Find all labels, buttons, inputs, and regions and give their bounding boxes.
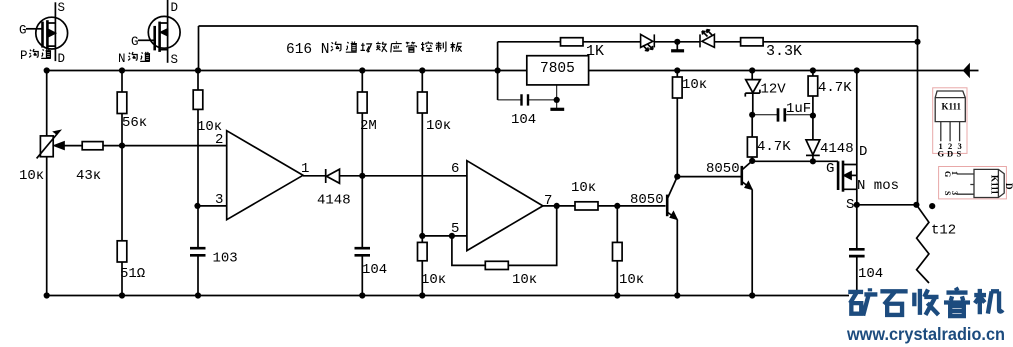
node 7805 gnd-104 <box>554 97 560 103</box>
node rail-10k col2 <box>195 67 201 73</box>
svg-text:3: 3 <box>950 191 959 195</box>
svg-text:10κ: 10κ <box>426 118 451 134</box>
wire 1K row <box>498 41 918 43</box>
svg-text:K111: K111 <box>990 175 1000 195</box>
node LED-ground <box>674 39 680 45</box>
node Q2 collector <box>749 158 755 164</box>
svg-text:10κ: 10κ <box>571 180 596 196</box>
svg-text:D: D <box>859 144 867 160</box>
svg-text:43κ: 43κ <box>76 168 101 184</box>
node Q1 collector <box>674 174 680 180</box>
node rail-4.7K <box>810 67 816 73</box>
capacitor 104 regulator <box>498 94 557 105</box>
svg-text:3: 3 <box>215 192 223 208</box>
node source-t12 <box>913 202 919 208</box>
svg-text:10κ: 10κ <box>682 77 707 93</box>
wire pin2 row with wiper arrow <box>55 142 83 149</box>
potentiometer RP1 10k <box>37 71 60 296</box>
wire source row <box>857 204 917 206</box>
svg-text:N mos: N mos <box>857 178 899 194</box>
transistor legend N-channel MOSFET <box>138 0 180 63</box>
svg-text:616 N: 616 N <box>286 42 330 58</box>
svg-text:G: G <box>826 161 834 177</box>
ground regulator <box>550 85 564 109</box>
svg-text:10κ: 10κ <box>619 272 644 288</box>
node pin2-43k <box>119 143 125 149</box>
resistor 4.7K left <box>747 115 757 161</box>
node gnd-103 <box>195 292 201 298</box>
svg-text:G: G <box>938 149 945 159</box>
node source <box>854 202 860 208</box>
svg-text:56κ: 56κ <box>122 115 147 131</box>
svg-text:D: D <box>58 52 66 66</box>
diode D3 4148 vertical <box>806 140 820 162</box>
capacitor 104 source <box>849 205 865 290</box>
wire op1 output to diode <box>303 175 326 177</box>
transistor legend P-channel MOSFET <box>26 2 68 61</box>
svg-text:S: S <box>171 53 179 67</box>
wire gate row <box>752 160 838 162</box>
svg-text:4.7K: 4.7K <box>757 139 791 155</box>
svg-text:G: G <box>19 24 27 38</box>
LED D2 <box>641 34 655 51</box>
node rail-pot <box>44 67 50 73</box>
node rail-drain <box>854 67 860 73</box>
svg-text:8050: 8050 <box>630 192 664 208</box>
resistor 51ohm <box>117 241 127 296</box>
wire pin2 row to op-amp <box>103 145 227 147</box>
node diode-2M-104 <box>359 173 365 179</box>
op-amp U1A <box>227 131 303 220</box>
svg-text:10κ: 10κ <box>19 168 44 184</box>
node output-feedback <box>554 203 560 209</box>
svg-text:N: N <box>118 52 126 66</box>
node gnd-104 <box>359 292 365 298</box>
node gnd-pot <box>44 292 50 298</box>
svg-text:51Ω: 51Ω <box>120 266 145 282</box>
power MOSFET N mos <box>838 71 857 205</box>
watermark 矿石收音机 <box>848 288 1003 317</box>
svg-text:D: D <box>171 1 179 15</box>
svg-text:P: P <box>20 49 28 63</box>
node gnd-51ohm <box>119 292 125 298</box>
thermistor t12 <box>916 205 929 283</box>
wire ground rail <box>47 295 849 297</box>
wire pin3 row <box>198 205 227 207</box>
regulator U2 7805 <box>527 56 589 85</box>
wire top rail <box>199 26 918 71</box>
wire pin5 row <box>422 235 467 237</box>
svg-text:7805: 7805 <box>540 61 575 77</box>
resistor 4.7K right <box>808 71 818 140</box>
diode D1 4148 <box>326 169 340 183</box>
svg-text:S: S <box>58 1 66 15</box>
svg-text:1: 1 <box>301 161 309 177</box>
svg-text:D: D <box>1004 183 1013 190</box>
resistor 43k <box>82 142 103 150</box>
node pin5-10k <box>419 233 425 239</box>
svg-text:S: S <box>957 149 962 159</box>
svg-text:G: G <box>131 35 139 49</box>
K111 package top view <box>933 88 967 159</box>
svg-text:103: 103 <box>213 251 238 267</box>
resistor 2M <box>358 71 368 249</box>
zener diode 12V <box>745 71 760 115</box>
svg-text:2: 2 <box>215 132 223 148</box>
resistor 10k base divider <box>613 206 623 296</box>
capacitor 103 <box>190 248 206 295</box>
node 1uF-4.7K <box>810 113 816 119</box>
node 3.3K-top drop <box>914 39 920 45</box>
svg-text:3.3K: 3.3K <box>766 43 802 60</box>
LED D4 <box>700 30 714 48</box>
node rail-7805 input <box>495 67 501 73</box>
svg-text:D: D <box>947 149 953 159</box>
input arrow on supply rail <box>963 64 969 77</box>
node gnd-10k col4 <box>419 292 425 298</box>
ground stub LED junction <box>671 42 684 51</box>
wire feedback loop <box>452 206 557 266</box>
svg-text:S: S <box>846 197 854 213</box>
svg-text:4.7K: 4.7K <box>818 80 852 96</box>
node gnd-Q2 emitter <box>749 292 755 298</box>
node gnd-divider <box>614 292 620 298</box>
wire main supply rail <box>47 70 979 72</box>
wire 1K row left drop <box>497 42 499 100</box>
svg-text:1: 1 <box>950 171 959 175</box>
resistor 10k output <box>575 202 598 210</box>
node stray dot <box>929 203 935 209</box>
resistor 10k collector Q1 <box>673 71 683 177</box>
node pin3 <box>194 203 200 209</box>
resistor 1K <box>561 38 584 46</box>
capacitor 104 mid <box>355 248 371 295</box>
label G S D P沟道 for legend P-MOSFET <box>19 1 65 66</box>
node gate-4148 <box>810 158 816 164</box>
svg-text:4148: 4148 <box>317 193 351 209</box>
svg-text:4148: 4148 <box>820 141 854 157</box>
resistor 3.3K <box>741 38 764 46</box>
node rail-2M <box>359 67 365 73</box>
resistor 56k <box>117 71 127 241</box>
node rail-10k col4 <box>419 67 425 73</box>
svg-text:10κ: 10κ <box>512 272 537 288</box>
wire op2 output row <box>543 205 666 207</box>
svg-text:104: 104 <box>511 112 536 128</box>
capacitor 1uF <box>752 108 813 121</box>
node gnd-Q1 emitter <box>674 292 680 298</box>
svg-text:104: 104 <box>362 262 387 278</box>
resistor 10k feedback <box>485 261 508 269</box>
svg-text:6: 6 <box>451 161 459 177</box>
label G D S N沟道 for legend N-MOSFET <box>118 1 178 67</box>
K111 package side view rotated <box>939 167 1013 199</box>
svg-text:8050: 8050 <box>706 161 740 177</box>
resistor 10k column4 top <box>418 71 428 236</box>
svg-text:104: 104 <box>858 266 883 282</box>
svg-text:10κ: 10κ <box>421 272 446 288</box>
svg-text:K111: K111 <box>942 102 962 112</box>
svg-text:www.crystalradio.cn: www.crystalradio.cn <box>846 324 1005 344</box>
node rail-zener <box>749 67 755 73</box>
transistor Q1 8050 <box>667 177 677 296</box>
resistor 10k column2 <box>193 71 203 249</box>
svg-text:12V: 12V <box>761 82 787 98</box>
svg-text:t12: t12 <box>931 223 956 239</box>
transistor Q2 8050 <box>742 161 752 296</box>
wire right drop column <box>917 26 919 205</box>
svg-text:1uF: 1uF <box>786 101 811 117</box>
node rail-10k collector <box>674 67 680 73</box>
node pin5-feedback <box>449 233 455 239</box>
svg-text:2M: 2M <box>360 118 377 134</box>
resistor 10k below pin5 <box>418 236 428 296</box>
node zener-1uF <box>749 112 755 118</box>
title 616 N沟道场效应管控制板 <box>286 42 462 58</box>
wire Q1 collector to Q2 base <box>677 176 742 178</box>
node Q1 base divider <box>614 203 620 209</box>
node rail-56k <box>119 67 125 73</box>
op-amp U1B <box>467 161 543 251</box>
wire diode to op2 pin6 <box>340 175 467 177</box>
